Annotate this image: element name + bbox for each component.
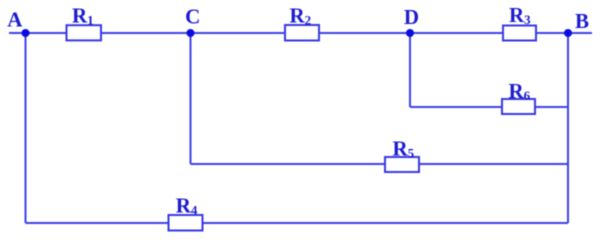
svg-text:C: C <box>185 5 200 29</box>
svg-text:B: B <box>575 9 589 33</box>
node C junction dot <box>187 29 195 37</box>
svg-text:R1: R1 <box>72 3 94 27</box>
wire: top rail R1 to C to R2 <box>101 32 285 34</box>
svg-text:R3: R3 <box>509 3 531 27</box>
wire: vertical from D down to R6 branch <box>409 33 411 107</box>
svg-text:R6: R6 <box>509 79 531 103</box>
wire: top rail R2 to D to R3 <box>319 32 503 34</box>
wire: left vertical from A down <box>25 33 27 223</box>
wire: right vertical from B down <box>567 33 569 223</box>
wire: R5 branch left segment <box>191 163 386 165</box>
svg-text:R4: R4 <box>176 194 198 218</box>
svg-text:A: A <box>7 8 23 32</box>
wire: bottom branch left segment <box>26 222 169 224</box>
resistor R5 <box>385 157 419 172</box>
resistor R6 <box>502 99 535 114</box>
wire: vertical from C down to R5 branch <box>190 33 192 164</box>
svg-text:R2: R2 <box>290 4 312 28</box>
wire: top rail R3 to B and right stub <box>536 32 592 34</box>
svg-text:R5: R5 <box>393 137 415 161</box>
wire: R6 branch right segment <box>535 106 568 108</box>
resistor R4 <box>169 215 203 231</box>
wire: top rail left segment A to R1 <box>9 32 67 34</box>
svg-text:D: D <box>404 5 419 29</box>
resistor R2 <box>285 25 319 41</box>
wire: R5 branch right segment <box>419 163 568 165</box>
node D junction dot <box>406 29 414 37</box>
resistor R3 <box>503 26 536 41</box>
wire: R6 branch left segment <box>410 106 502 108</box>
node B junction dot <box>564 29 572 37</box>
resistor R1 <box>67 25 102 40</box>
node A junction dot <box>22 29 30 37</box>
wire: bottom branch right segment <box>203 222 569 224</box>
